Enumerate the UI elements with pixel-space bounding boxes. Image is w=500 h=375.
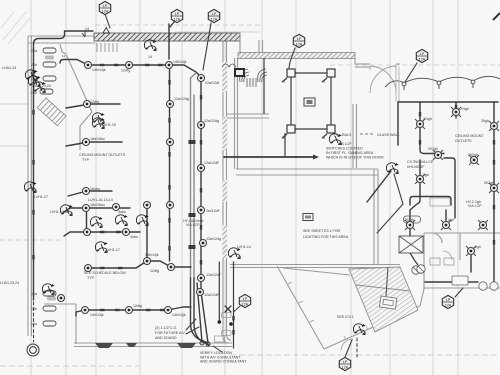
svg-text:14h/14jk: 14h/14jk — [92, 68, 106, 72]
svg-text:VIA LCP: VIA LCP — [338, 142, 352, 146]
svg-text:OUTLETS: OUTLETS — [455, 139, 472, 143]
svg-text:(2) 1-1/2"C.O.: (2) 1-1/2"C.O. — [155, 326, 177, 330]
svg-text:SEE SCHEDULE BELOW: SEE SCHEDULE BELOW — [84, 271, 126, 275]
svg-text:42: 42 — [322, 136, 326, 140]
svg-text:LIGHTING FOR THIS AREA: LIGHTING FOR THIS AREA — [303, 235, 349, 239]
svg-text:12a/12dg: 12a/12dg — [206, 237, 221, 241]
svg-text:14h/14jk: 14h/14jk — [173, 60, 187, 64]
svg-text:12a/12dF: 12a/12dF — [204, 161, 220, 165]
svg-text:2½gh: 2½gh — [460, 107, 469, 111]
svg-text:4ubu: 4ubu — [118, 210, 126, 214]
svg-text:2f/2gh: 2f/2gh — [404, 218, 414, 222]
svg-text:4ubu: 4ubu — [130, 235, 138, 239]
svg-text:24b: 24b — [31, 63, 37, 67]
svg-text:AND SOUND: AND SOUND — [155, 336, 177, 340]
svg-text:2f/2gh: 2f/2gh — [484, 181, 494, 185]
svg-text:24b: 24b — [31, 91, 37, 95]
svg-text:14: 14 — [148, 55, 152, 59]
svg-text:14h/14jk: 14h/14jk — [90, 313, 104, 317]
svg-text:12dfg: 12dfg — [150, 269, 159, 273]
svg-text:18u/18uu: 18u/18uu — [90, 203, 105, 207]
svg-text:42: 42 — [282, 80, 286, 84]
svg-text:42: 42 — [282, 136, 286, 140]
svg-text:SWITCHES LOCATED: SWITCHES LOCATED — [326, 147, 363, 151]
svg-text:2gh: 2gh — [448, 218, 454, 222]
svg-text:2f/2gh: 2f/2gh — [468, 153, 478, 157]
svg-text:2f/2gh: 2f/2gh — [428, 147, 438, 151]
svg-text:12dfg: 12dfg — [121, 69, 130, 73]
svg-text:FOR FUTURE A/V: FOR FUTURE A/V — [155, 331, 185, 335]
svg-text:SEE SHEET E3.1 FOR: SEE SHEET E3.1 FOR — [303, 229, 340, 233]
svg-text:14a: 14a — [31, 292, 37, 296]
svg-text:24a: 24a — [31, 77, 37, 81]
svg-text:12dfg: 12dfg — [133, 304, 142, 308]
svg-text:12a/12dF: 12a/12dF — [204, 293, 220, 297]
svg-text:VIA LCP: VIA LCP — [186, 223, 200, 227]
svg-text:LVH1-17: LVH1-17 — [106, 248, 120, 252]
svg-text:42: 42 — [322, 80, 326, 84]
svg-text:2w/12dF: 2w/12dF — [206, 209, 221, 213]
svg-text:16ubu: 16ubu — [90, 187, 100, 191]
svg-text:LHA1-23,24: LHA1-23,24 — [0, 281, 19, 285]
svg-text:IN FIRST FL. GAMING AREA: IN FIRST FL. GAMING AREA — [326, 151, 374, 155]
svg-text:LUH1-16-13-14: LUH1-16-13-14 — [88, 198, 113, 202]
svg-text:KHLNG 2F: KHLNG 2F — [407, 165, 425, 169]
svg-text:LVH1-27: LVH1-27 — [34, 195, 48, 199]
svg-text:14: 14 — [85, 27, 89, 31]
svg-text:24a: 24a — [31, 49, 37, 53]
svg-text:CX SW VIA LCP: CX SW VIA LCP — [407, 160, 434, 164]
svg-text:VIA LCP: VIA LCP — [468, 204, 482, 208]
svg-text:TYP.: TYP. — [82, 158, 90, 162]
svg-text:SEE IC3.1: SEE IC3.1 — [337, 315, 354, 319]
svg-text:CEILING MOUNT OUTLETS: CEILING MOUNT OUTLETS — [79, 153, 126, 157]
svg-text:12a/12dF: 12a/12dF — [206, 273, 222, 277]
svg-text:14h/14jk: 14h/14jk — [145, 253, 159, 257]
svg-text:GLASS WALL: GLASS WALL — [377, 133, 400, 137]
svg-text:CEILING MOUNT: CEILING MOUNT — [455, 134, 484, 138]
svg-text:LVH1-15: LVH1-15 — [102, 123, 116, 127]
svg-text:14a: 14a — [31, 322, 37, 326]
svg-text:18a/16bz: 18a/16bz — [90, 137, 105, 141]
svg-text:TYP.: TYP. — [87, 276, 95, 280]
svg-text:LVH1-18-15: LVH1-18-15 — [50, 210, 69, 214]
svg-text:WHICH IS IN SITE OF THIS ROOM: WHICH IS IN SITE OF THIS ROOM — [326, 156, 383, 160]
svg-text:LHA1-24: LHA1-24 — [2, 66, 16, 70]
svg-text:AND SOUND CONSULTANT: AND SOUND CONSULTANT — [200, 360, 247, 364]
svg-text:12a/12dg: 12a/12dg — [174, 97, 189, 101]
svg-text:14b: 14b — [31, 307, 37, 311]
svg-text:2½gh: 2½gh — [423, 117, 432, 121]
svg-text:(?)—RALS: (?)—RALS — [334, 133, 352, 137]
svg-text:14h/14jk: 14h/14jk — [172, 313, 186, 317]
svg-text:2gh: 2gh — [423, 173, 429, 177]
svg-text:14: 14 — [62, 54, 66, 58]
svg-text:12a/12df: 12a/12df — [205, 81, 219, 85]
svg-text:2gh: 2gh — [475, 245, 481, 249]
svg-text:12dfg: 12dfg — [90, 100, 99, 104]
svg-text:12a/12dg: 12a/12dg — [204, 119, 219, 123]
svg-text:LVH1-14: LVH1-14 — [237, 245, 251, 249]
svg-text:LVH1-23,24: LVH1-23,24 — [32, 84, 51, 88]
svg-text:2f/gh: 2f/gh — [481, 119, 489, 123]
